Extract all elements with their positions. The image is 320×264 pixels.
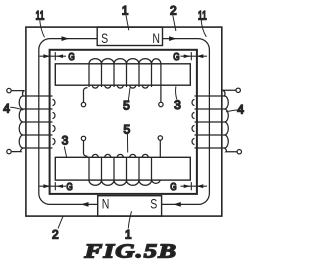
magnet 1 top (S-N) bbox=[97, 27, 162, 45]
flux arrow bottom-left bbox=[81, 202, 89, 207]
winding 5 on top bar bbox=[84, 59, 161, 103]
flux arrow top-right bbox=[169, 36, 177, 41]
coil 4 left bbox=[11, 91, 55, 152]
terminal bottom-bar left bbox=[81, 136, 85, 140]
svg-text:11: 11 bbox=[36, 10, 45, 23]
svg-text:N: N bbox=[152, 31, 160, 47]
svg-text:G: G bbox=[68, 51, 74, 62]
leader for 5 bottom bbox=[126, 134, 128, 153]
core bar 3 bottom bbox=[55, 157, 190, 180]
svg-text:5: 5 bbox=[123, 99, 130, 113]
leader for 2 bottom bbox=[58, 216, 63, 228]
winding 5 on bottom bar bbox=[84, 140, 161, 185]
svg-text:1: 1 bbox=[125, 228, 132, 242]
inner core rectangle bbox=[50, 50, 197, 194]
gap G marker top-left bbox=[40, 52, 67, 60]
svg-text:4: 4 bbox=[3, 101, 10, 115]
leader for 4 left bbox=[10, 107, 23, 110]
svg-text:3: 3 bbox=[62, 134, 69, 148]
flux arrow top-left bbox=[62, 36, 70, 41]
svg-text:5: 5 bbox=[123, 122, 130, 136]
terminal bottom-bar right bbox=[158, 136, 162, 140]
svg-text:S: S bbox=[150, 196, 157, 212]
terminal top-bar left bbox=[81, 102, 85, 106]
terminal right-coil bottom bbox=[237, 150, 241, 154]
leader for 5 top bbox=[128, 88, 130, 102]
leader for 3 top bbox=[176, 86, 177, 99]
leader for 11 top-left bbox=[40, 21, 45, 38]
leader for 3 bottom bbox=[64, 147, 66, 158]
terminal top-bar right bbox=[159, 102, 163, 106]
svg-text:1: 1 bbox=[122, 3, 129, 17]
svg-text:2: 2 bbox=[170, 3, 177, 17]
terminal left-coil top bbox=[7, 88, 11, 92]
terminal left-coil bottom bbox=[7, 149, 11, 153]
gap G marker bottom-left bbox=[40, 182, 67, 190]
leader for 1 bottom bbox=[128, 211, 131, 228]
leader for 11 top-right bbox=[201, 20, 206, 37]
svg-text:G: G bbox=[66, 181, 72, 192]
svg-text:N: N bbox=[102, 196, 110, 212]
svg-text:S: S bbox=[101, 31, 108, 47]
leader for 1 top bbox=[126, 15, 129, 30]
flux arrow bottom-right bbox=[173, 202, 181, 207]
terminal right-coil top bbox=[236, 88, 240, 92]
svg-text:4: 4 bbox=[237, 103, 244, 117]
leader for 4 right bbox=[226, 110, 238, 112]
svg-text:FIG.5B: FIG.5B bbox=[83, 241, 177, 263]
magnet 1 bottom (N-S) bbox=[98, 196, 162, 216]
leader for 2 top bbox=[173, 15, 176, 31]
flux path ring (node 2) bbox=[39, 39, 210, 205]
outer yoke frame bbox=[26, 27, 222, 216]
coil 4 right bbox=[192, 90, 237, 151]
gap G marker bottom-right bbox=[181, 182, 208, 190]
svg-text:3: 3 bbox=[174, 98, 181, 112]
core bar 3 top bbox=[55, 64, 190, 85]
gap G marker top-right bbox=[181, 52, 208, 60]
svg-text:2: 2 bbox=[52, 228, 59, 242]
svg-text:11: 11 bbox=[198, 10, 207, 23]
svg-text:G: G bbox=[170, 181, 176, 192]
svg-text:G: G bbox=[173, 51, 179, 62]
